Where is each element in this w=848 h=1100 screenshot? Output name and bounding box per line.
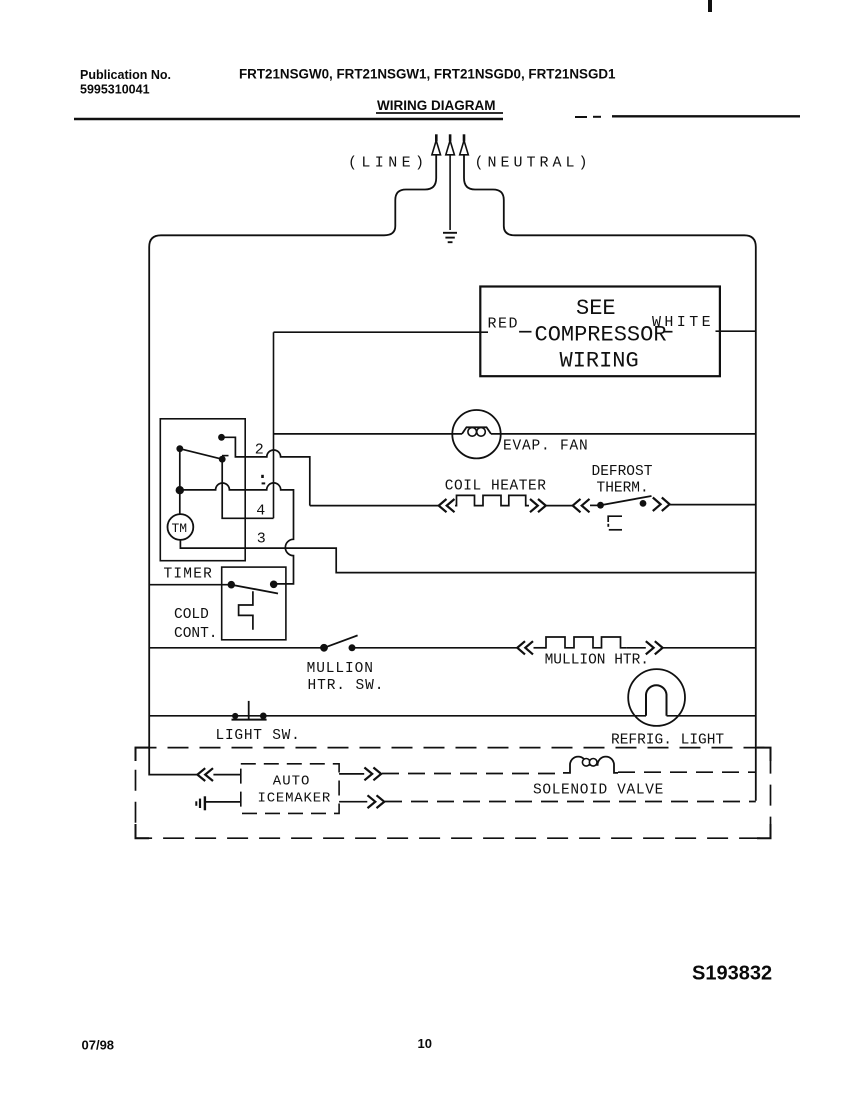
neutral arrow [460, 134, 469, 155]
svg-text:AUTO: AUTO [273, 773, 311, 789]
wire: timer pin 3 to right rail [180, 540, 755, 573]
mullion heater switch [320, 644, 328, 652]
svg-text:10: 10 [418, 1036, 432, 1051]
wire: evap fan row [274, 433, 463, 435]
svg-text:SOLENOID VALVE: SOLENOID VALVE [533, 782, 664, 798]
timer common contact [176, 445, 183, 452]
light switch [232, 713, 238, 719]
svg-text:CONT.: CONT. [174, 626, 218, 642]
svg-text:2: 2 [255, 441, 264, 458]
dashed wire to right rail [618, 771, 756, 773]
wire: timer pin 1 to cold control [180, 483, 294, 584]
wire [626, 647, 646, 649]
svg-text:5995310041: 5995310041 [80, 83, 150, 97]
connector chevrons << [197, 768, 213, 781]
wire: timer common down to motor node [179, 449, 181, 491]
svg-text:MULLION HTR.: MULLION HTR. [545, 653, 649, 669]
svg-text:4: 4 [256, 502, 265, 519]
connector chevrons >> [646, 641, 663, 654]
node: compressor feed (red wire) [274, 331, 489, 333]
light row wire [149, 715, 646, 717]
defrost thermostat bracket mark [608, 516, 622, 522]
svg-text:ICEMAKER: ICEMAKER [258, 791, 332, 807]
svg-text:3: 3 [257, 530, 266, 547]
connector chevrons >> [653, 498, 670, 512]
timer pin 2 contact [218, 434, 225, 441]
svg-text:WHITE: WHITE [652, 314, 714, 331]
icemaker row 2: water valve ground [195, 801, 197, 806]
ground wire [449, 155, 451, 230]
svg-text:EVAP. FAN: EVAP. FAN [503, 439, 589, 455]
wire: line side + left rail [149, 155, 436, 776]
connector chevrons << [573, 499, 590, 512]
wire: vertical from compressor row to timer pin 4 [273, 332, 275, 518]
svg-text:COIL HEATER: COIL HEATER [445, 478, 547, 494]
ground arrow [446, 134, 455, 155]
wire [339, 773, 364, 775]
wire [352, 647, 518, 649]
wire to right rail [670, 504, 756, 506]
connector chevrons << [439, 499, 455, 512]
pin label 1 (faded) [261, 475, 264, 478]
wire [213, 774, 240, 776]
page corner tick [708, 0, 712, 12]
solenoid valve coil [563, 757, 618, 773]
header rule [74, 118, 503, 121]
cold control bellows [239, 591, 253, 629]
svg-text:TIMER: TIMER [164, 566, 214, 582]
timer switch arm [180, 449, 222, 460]
wire to right rail [663, 647, 756, 649]
svg-text:COMPRESSOR: COMPRESSOR [535, 323, 667, 348]
svg-text:MULLION: MULLION [307, 661, 374, 677]
svg-text:WIRING DIAGRAM: WIRING DIAGRAM [377, 98, 496, 113]
dashed wire to solenoid [382, 773, 563, 775]
svg-text:COLD: COLD [174, 607, 209, 623]
wire [590, 504, 601, 506]
ground symbol [443, 233, 457, 242]
evap fan motor [452, 410, 500, 458]
connector chevrons >> [530, 499, 546, 512]
wire [546, 505, 573, 507]
line arrow [432, 134, 441, 155]
connector chevrons >> [364, 768, 381, 781]
auto icemaker box (dashed) [241, 764, 339, 814]
svg-text:THERM.: THERM. [597, 481, 649, 497]
wire: timer pin 4 jumper [222, 459, 273, 518]
dashed wire to right rail [385, 801, 756, 803]
defrost thermostat [597, 502, 604, 509]
refrigerator light bulb [628, 669, 685, 726]
svg-text:(NEUTRAL): (NEUTRAL) [475, 155, 592, 172]
compressor reference box [480, 287, 720, 377]
connector chevrons >> [368, 795, 385, 808]
wire [206, 801, 241, 803]
wire: left rail to cold control [149, 584, 231, 586]
connector chevrons << [517, 641, 533, 654]
coil heater element [455, 495, 529, 505]
cold control switch [228, 581, 236, 589]
svg-text:LIGHT SW.: LIGHT SW. [216, 728, 301, 744]
timer box [160, 419, 245, 561]
icemaker row 1 wire [150, 774, 198, 776]
svg-text:DEFROST: DEFROST [592, 464, 653, 480]
wire [339, 801, 367, 803]
icemaker dashed enclosure [136, 748, 771, 839]
svg-text:(LINE): (LINE) [348, 155, 428, 172]
wire [534, 647, 547, 649]
timer motor TM [179, 490, 181, 514]
cold control box [222, 567, 286, 640]
svg-text:REFRIG. LIGHT: REFRIG. LIGHT [611, 733, 724, 749]
wire: neutral side + right rail [464, 155, 756, 801]
mullion row wire [149, 647, 324, 649]
svg-text:FRT21NSGW0, FRT21NSGW1, FRT21N: FRT21NSGW0, FRT21NSGW1, FRT21NSGD0, FRT2… [239, 67, 616, 82]
mullion heater element [545, 637, 627, 648]
node: timer motor junction [176, 486, 184, 494]
timer pin 1 contact [219, 456, 226, 463]
wire: timer pin 2 to defrost row [222, 437, 310, 505]
svg-text:RED: RED [488, 316, 520, 333]
svg-text:HTR. SW.: HTR. SW. [308, 678, 385, 694]
svg-text:SEE: SEE [576, 296, 616, 321]
svg-text:07/98: 07/98 [82, 1038, 115, 1053]
svg-text:Publication No.: Publication No. [80, 68, 171, 82]
svg-text:TM: TM [172, 521, 188, 536]
svg-text:S193832: S193832 [692, 963, 772, 985]
defrost row wire [310, 505, 439, 507]
svg-text:WIRING: WIRING [560, 349, 639, 374]
